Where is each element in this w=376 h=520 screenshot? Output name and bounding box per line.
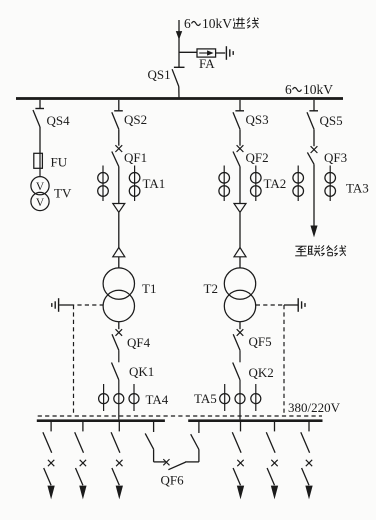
svg-text:QS1: QS1 xyxy=(148,67,171,82)
svg-text:QF3: QF3 xyxy=(324,150,347,165)
svg-text:6: 6 xyxy=(184,16,191,31)
svg-text:QS4: QS4 xyxy=(47,113,71,128)
svg-text:10kV: 10kV xyxy=(303,82,333,97)
svg-text:QK1: QK1 xyxy=(129,364,154,379)
svg-text:QS5: QS5 xyxy=(320,113,343,128)
svg-text:V: V xyxy=(36,181,45,193)
svg-text:380/220V: 380/220V xyxy=(288,400,341,415)
svg-text:QF2: QF2 xyxy=(246,150,269,165)
svg-text:TA5: TA5 xyxy=(194,391,217,406)
svg-text:10kV: 10kV xyxy=(202,16,232,31)
svg-text:V: V xyxy=(36,197,45,209)
svg-text:QF5: QF5 xyxy=(249,334,272,349)
svg-text:TA1: TA1 xyxy=(143,176,166,191)
svg-text:QF6: QF6 xyxy=(161,473,185,488)
svg-text:6: 6 xyxy=(285,82,292,97)
svg-text:FU: FU xyxy=(51,155,68,170)
svg-text:TA3: TA3 xyxy=(346,181,369,196)
svg-text:T1: T1 xyxy=(142,281,156,296)
svg-text:QF1: QF1 xyxy=(124,150,147,165)
svg-text:FA: FA xyxy=(199,56,215,71)
svg-text:QS2: QS2 xyxy=(124,112,147,127)
svg-text:TA2: TA2 xyxy=(264,176,287,191)
svg-text:QS3: QS3 xyxy=(246,112,269,127)
svg-text:TA4: TA4 xyxy=(146,392,169,407)
svg-text:TV: TV xyxy=(54,186,72,201)
svg-text:QK2: QK2 xyxy=(249,365,274,380)
svg-text:T2: T2 xyxy=(204,281,218,296)
svg-text:QF4: QF4 xyxy=(127,335,151,350)
